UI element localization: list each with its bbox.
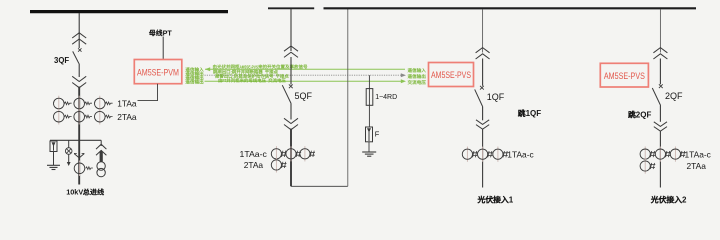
- wire: [482, 59, 484, 86]
- wire: [290, 104, 292, 120]
- wire PVM to CT: [138, 84, 158, 101]
- wire: [482, 129, 484, 187]
- drawout contact lower 5QF: [284, 118, 298, 123]
- label 10kV incomer: [66, 188, 104, 197]
- fuse: [100, 150, 102, 152]
- svg-text:2QF: 2QF: [665, 91, 683, 101]
- signal caption row B: [213, 69, 278, 74]
- svg-text:1: 1: [509, 196, 514, 205]
- wire incomer lower: [78, 142, 80, 185]
- busbar PV section: [324, 7, 697, 9]
- CT 2TAa: [58, 109, 60, 125]
- wire 5QF drop: [290, 9, 292, 51]
- signal line trip (dashed): [205, 74, 402, 76]
- label bus PT: [149, 28, 172, 37]
- wire: [78, 64, 80, 78]
- busbar 10kV main: [30, 10, 228, 13]
- fuse 1-4RD: [366, 89, 373, 106]
- CT 1TAa-c PT feeder: [275, 146, 277, 161]
- svg-text:2TAa: 2TAa: [244, 160, 264, 170]
- CT 2TAa PV2: [644, 158, 646, 173]
- svg-text:1QF: 1QF: [487, 92, 505, 102]
- svg-text:AM5SE-PVS: AM5SE-PVS: [604, 71, 645, 81]
- wire: [482, 107, 484, 120]
- wire PT to PVM: [162, 37, 164, 60]
- wire incomer drop: [78, 13, 80, 48]
- svg-text:AM5SE-PVS: AM5SE-PVS: [431, 70, 471, 80]
- wire: [659, 106, 661, 122]
- drawout contact upper 5QF: [284, 46, 298, 51]
- svg-text:1TAa-c: 1TAa-c: [685, 149, 711, 159]
- drawout contact upper 3QF: [72, 33, 86, 38]
- drawout contact lower 3QF: [72, 76, 86, 81]
- breaker 5QF: [289, 84, 293, 88]
- svg-text:2QF: 2QF: [636, 111, 652, 120]
- drawout contact upper 2QF: [653, 48, 667, 53]
- svg-text:1TAa-c: 1TAa-c: [240, 149, 268, 159]
- signal caption row A: [213, 64, 307, 69]
- CT zero-seq: [79, 161, 81, 177]
- label 1TAa-c: [240, 149, 268, 159]
- wire: [659, 131, 661, 187]
- ground: [47, 164, 60, 166]
- label 1TAa: [117, 99, 137, 109]
- breaker 1QF: [480, 86, 484, 90]
- signal label left col: [185, 67, 203, 71]
- label 1TAa-c PV1: [507, 149, 533, 159]
- svg-text:1~4RD: 1~4RD: [375, 94, 397, 101]
- svg-text:2TAa: 2TAa: [117, 112, 137, 122]
- svg-text:1QF: 1QF: [526, 109, 542, 118]
- CT 1TAa-c PV1: [466, 147, 468, 162]
- ground: [362, 151, 376, 153]
- svg-text:10kV: 10kV: [66, 188, 83, 197]
- wire PT secondary: [368, 75, 370, 89]
- svg-text:F: F: [375, 130, 380, 139]
- arrester F: [366, 127, 373, 142]
- CT 1TAa: [58, 96, 60, 112]
- wire: [659, 59, 661, 85]
- CT 2TAa PT feeder: [275, 157, 277, 172]
- signal caption row C: [215, 74, 288, 79]
- signal caption row D: [219, 78, 286, 83]
- wire: [368, 105, 370, 127]
- svg-text:2: 2: [682, 196, 687, 205]
- signal line PVS to PVM: [205, 67, 210, 71]
- wire distribution: [50, 139, 101, 141]
- breaker 2QF: [659, 84, 663, 88]
- label 1TAa-c PV2: [685, 149, 711, 159]
- svg-text:1TAa-c: 1TAa-c: [507, 149, 533, 159]
- relay AM5SE-PVS 1: [429, 63, 474, 87]
- svg-text:2TAa: 2TAa: [687, 161, 707, 171]
- drawout contact upper 1QF: [476, 48, 490, 53]
- svg-text:AM5SE-PVM: AM5SE-PVM: [137, 67, 179, 77]
- signal line alarm: [205, 80, 402, 82]
- label 2TAa: [117, 112, 137, 122]
- label trip 1QF: [518, 109, 541, 118]
- svg-text:PT: PT: [163, 28, 173, 37]
- drawout contact lower 1QF: [476, 120, 489, 125]
- breaker 3QF: [78, 48, 81, 51]
- svg-text:1TAa: 1TAa: [117, 99, 137, 109]
- busbar section A: [268, 7, 314, 9]
- disconnect chevron: [74, 154, 84, 158]
- label PV in 2: [651, 196, 687, 205]
- svg-text:5QF: 5QF: [295, 91, 313, 101]
- CT 1TAa-c PV2: [644, 147, 646, 162]
- PT branch: [100, 140, 102, 146]
- relay AM5SE-PVS 2: [600, 63, 648, 87]
- wire: [290, 129, 292, 187]
- drawout contact lower 2QF: [654, 122, 667, 127]
- svg-text:PT: PT: [222, 78, 226, 83]
- PT winding: [97, 162, 105, 170]
- surge arrester incomer: [50, 141, 57, 152]
- relay AM5SE-PVM: [134, 60, 182, 84]
- wire PV1 drop: [482, 9, 484, 53]
- svg-text:AM5SE-PVS: AM5SE-PVS: [240, 64, 259, 69]
- label PV in 1: [478, 196, 514, 205]
- svg-text:3QF: 3QF: [54, 56, 69, 65]
- wire loop bottom: [291, 185, 348, 187]
- live-line indicator: [68, 140, 70, 148]
- wire PV2 drop: [659, 9, 661, 53]
- label 2TAa: [244, 160, 264, 170]
- signal label right col: [408, 68, 426, 72]
- label trip 2QF: [628, 111, 651, 120]
- wire loop riser: [347, 9, 349, 186]
- wire: [290, 57, 292, 85]
- label 2TAa PV2: [687, 161, 707, 171]
- wire: [78, 87, 80, 143]
